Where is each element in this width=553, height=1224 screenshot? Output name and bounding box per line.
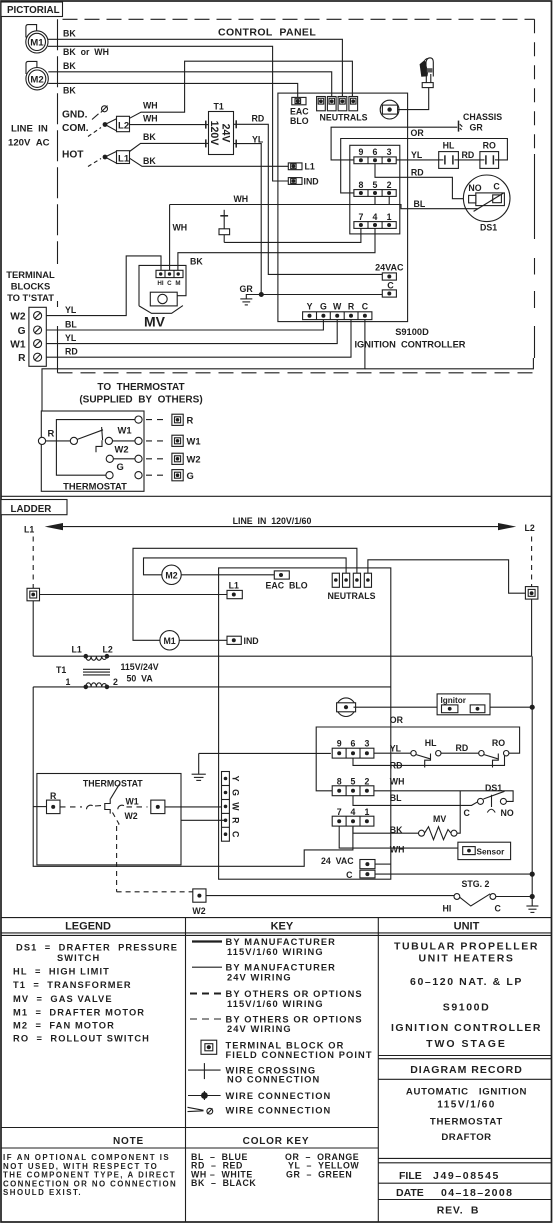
L2 rail lower solid (531, 599, 533, 656)
T1 secondary wire to controller (33, 686, 391, 688)
transformer T1 (209, 112, 234, 155)
svg-text:R: R (231, 817, 241, 824)
HL switch ladder (411, 751, 416, 756)
svg-text:BK: BK (63, 61, 76, 71)
wire M2 BK to EAC BLO (48, 83, 298, 97)
wire MV to WH row ladder (457, 791, 460, 833)
neutral terminal 4 (349, 97, 358, 111)
wire BL 5 to DS1 C ladder (353, 796, 478, 806)
wire C to rail ladder (375, 873, 532, 875)
W1 dashes ladder (127, 806, 148, 808)
wire WH 7 to sensor ladder (339, 826, 458, 848)
svg-text:DS1: DS1 (480, 223, 497, 233)
neutral terminals ladder (332, 573, 339, 587)
svg-text:NO: NO (501, 808, 514, 818)
wire terminal 7 to splice (224, 228, 361, 242)
neutral terminal 1 (317, 97, 326, 111)
round ignitor terminal (380, 100, 399, 119)
svg-text:TUBULAR PROPELLER: TUBULAR PROPELLER (394, 941, 539, 953)
svg-text:3: 3 (387, 147, 392, 157)
svg-text:BK or WH: BK or WH (63, 47, 109, 57)
svg-text:THERMOSTAT: THERMOSTAT (83, 779, 143, 789)
svg-text:W1: W1 (118, 424, 132, 435)
motor M2 (26, 68, 48, 90)
svg-text:BK – BLACK: BK – BLACK (191, 1178, 256, 1188)
svg-text:T1 = TRANSFORMER: T1 = TRANSFORMER (13, 980, 132, 990)
svg-text:M2: M2 (165, 570, 177, 580)
wire WH 2 to DS1 NO ladder (374, 791, 513, 802)
svg-text:COM.: COM. (62, 123, 89, 134)
key symbol solid 24V (192, 966, 222, 968)
svg-text:GR: GR (240, 284, 254, 294)
wire BL G to terminal block G (46, 320, 323, 330)
thermostat R circle top (135, 416, 142, 423)
L1 24V rail down (33, 687, 353, 866)
chassis ground symbol (458, 121, 460, 132)
svg-text:SWITCH: SWITCH (57, 953, 100, 963)
IND terminal ladder (227, 636, 241, 644)
NOTE box (1, 1127, 378, 1129)
svg-text:L1: L1 (72, 645, 82, 655)
svg-text:OR: OR (411, 128, 425, 138)
wire W1 to strip W (165, 806, 222, 808)
svg-text:C: C (346, 870, 353, 880)
Ignitor box ladder (437, 694, 490, 715)
svg-text:L1: L1 (305, 162, 315, 172)
LADDER title box (1, 500, 67, 515)
svg-text:W2: W2 (187, 454, 201, 465)
svg-text:M1 = DRAFTER MOTOR: M1 = DRAFTER MOTOR (13, 1007, 145, 1017)
svg-text:R: R (18, 353, 26, 364)
node ignitor rail (530, 705, 535, 710)
screw terminal G (34, 326, 42, 334)
svg-text:GR: GR (470, 123, 484, 133)
svg-text:DS1: DS1 (485, 783, 502, 793)
svg-text:24VAC: 24VAC (375, 263, 404, 273)
svg-text:Y: Y (231, 776, 241, 782)
wire YL 3 to HL ladder (374, 752, 411, 754)
wire YL W2 to MV HI (46, 256, 161, 316)
svg-text:115V/1/60 WIRING: 115V/1/60 WIRING (227, 999, 324, 1009)
svg-text:W2: W2 (10, 311, 26, 322)
wire YL T1 secondary to GR (234, 144, 262, 295)
screw terminal R (34, 353, 42, 361)
svg-text:4: 4 (373, 212, 378, 222)
svg-text:WH: WH (173, 222, 188, 232)
svg-text:T1: T1 (214, 102, 224, 112)
svg-text:MV = GAS VALVE: MV = GAS VALVE (13, 994, 113, 1004)
svg-text:RO: RO (483, 141, 496, 151)
svg-text:W: W (231, 802, 241, 811)
svg-text:9: 9 (358, 147, 363, 157)
thermostat W2 contact (106, 455, 113, 462)
svg-text:C: C (387, 281, 394, 291)
svg-text:HI: HI (443, 904, 452, 914)
file date rev rows (378, 1157, 551, 1159)
svg-text:NEUTRALS: NEUTRALS (320, 113, 368, 123)
svg-text:J49–08545: J49–08545 (433, 1170, 500, 1182)
svg-text:LINE IN: LINE IN (11, 124, 48, 135)
field connection G (146, 474, 168, 476)
svg-text:8: 8 (337, 776, 342, 786)
wire M1 BK to neutral 3 (48, 39, 342, 96)
svg-text:5: 5 (351, 776, 356, 786)
svg-text:W2: W2 (192, 906, 205, 916)
wire M1 to neutral 3 ladder (133, 548, 357, 640)
svg-text:BK: BK (63, 29, 76, 39)
wire RD terminal 6 to DS1 NO (375, 164, 469, 199)
screw terminal W2 (34, 312, 42, 320)
svg-text:C: C (464, 808, 471, 818)
svg-text:CHASSIS: CHASSIS (463, 112, 502, 122)
svg-text:RD: RD (456, 743, 469, 753)
key symbol wire connection dot (188, 1095, 221, 1097)
tables column dividers (185, 918, 187, 1222)
svg-text:BL: BL (414, 199, 426, 209)
key symbol dashed 24V (190, 1018, 224, 1020)
svg-text:UNIT HEATERS: UNIT HEATERS (418, 952, 514, 964)
svg-text:KEY: KEY (271, 921, 294, 933)
svg-text:L2: L2 (118, 121, 129, 132)
wire BK terminal 4 to MV M (178, 228, 375, 270)
terminal L2 (103, 122, 108, 127)
svg-text:W1: W1 (187, 436, 201, 447)
svg-text:TO T’STAT: TO T’STAT (7, 292, 54, 303)
motor M1 scroll housing (26, 25, 37, 38)
svg-text:24V WIRING: 24V WIRING (227, 972, 292, 982)
svg-text:RD: RD (65, 347, 78, 357)
wire BK L1 hot to controller L1 (130, 158, 289, 166)
svg-text:WIRE CONNECTION: WIRE CONNECTION (226, 1091, 332, 1101)
wire L1 rail to L1 terminal (40, 594, 228, 596)
svg-text:BY MANUFACTURER: BY MANUFACTURER (226, 963, 337, 973)
thermostat box (41, 411, 144, 491)
svg-text:BK: BK (190, 256, 203, 266)
svg-text:W2: W2 (115, 444, 129, 455)
splice connector on WH wire (223, 210, 225, 229)
wire M2 to EAC BLO ladder (181, 574, 274, 576)
wire rail to thermostat R ladder (33, 806, 46, 808)
svg-text:HL: HL (425, 738, 437, 748)
svg-text:C: C (362, 302, 369, 312)
wire ignitor to L2 rail (490, 706, 532, 708)
svg-text:W: W (333, 302, 342, 312)
PICTORIAL title box (1, 2, 63, 17)
ground GR node (259, 292, 264, 297)
svg-text:G: G (18, 326, 26, 337)
diagram record box (378, 1055, 551, 1057)
svg-text:DRAFTOR: DRAFTOR (441, 1132, 491, 1143)
svg-text:NEUTRALS: NEUTRALS (328, 591, 376, 601)
svg-text:RD: RD (390, 761, 403, 771)
MV solenoid body (150, 292, 177, 306)
svg-text:RD: RD (462, 150, 475, 160)
svg-text:NOTE: NOTE (113, 1136, 144, 1147)
svg-text:BL: BL (390, 793, 402, 803)
Sensor box ladder (458, 842, 511, 859)
svg-text:8: 8 (358, 180, 363, 190)
transformer T1 ladder top wire (32, 601, 34, 656)
svg-text:24V WIRING: 24V WIRING (227, 1024, 292, 1034)
svg-text:LADDER: LADDER (11, 504, 52, 515)
key symbol terminal block (201, 1040, 217, 1054)
wire WH MV C (169, 205, 171, 271)
svg-text:RD: RD (252, 114, 265, 124)
L1 rail terminal (27, 588, 40, 601)
wire BK 4 to MV ladder (353, 826, 419, 833)
wire GR to C terminal (261, 294, 382, 296)
key symbol solid 115V (192, 940, 222, 942)
svg-text:TO THERMOSTAT: TO THERMOSTAT (97, 382, 184, 393)
svg-text:IGNITION CONTROLLER: IGNITION CONTROLLER (391, 1022, 542, 1034)
T1 ladder primary (84, 654, 89, 659)
wire RD HL to RO (458, 159, 480, 161)
svg-text:C: C (493, 181, 500, 191)
wire round terminal to ignitor (398, 88, 429, 110)
svg-text:2: 2 (364, 776, 369, 786)
svg-text:115V/1/60 WIRING: 115V/1/60 WIRING (227, 947, 324, 957)
wire C to thermostat R (42, 320, 365, 411)
high limit HL (439, 152, 459, 169)
svg-text:5: 5 (373, 180, 378, 190)
section divider pictorial/ladder (1, 495, 552, 497)
wire M2 to neutral 2 ladder (144, 558, 347, 575)
L2 rail terminal (525, 587, 538, 600)
wire M1 BK or WH to IND (48, 46, 288, 181)
wire STG2 to ground rail (496, 896, 532, 898)
svg-text:BLO: BLO (290, 116, 309, 126)
MV terminal strip HI C M (156, 270, 183, 277)
svg-text:YL: YL (390, 743, 402, 753)
svg-text:YL: YL (65, 305, 77, 315)
control panel dashed border right (534, 19, 536, 150)
screw terminal W1 (34, 340, 42, 348)
svg-text:M1: M1 (30, 38, 44, 49)
svg-text:TERMINAL: TERMINAL (6, 269, 55, 280)
svg-text:CONNECTION OR NO CONNECTION: CONNECTION OR NO CONNECTION (3, 1179, 177, 1188)
ground bottom right ladder (531, 897, 533, 906)
svg-text:STG. 2: STG. 2 (462, 879, 490, 889)
motor M1 ladder (160, 631, 179, 650)
control panel dashed border bottom (58, 372, 535, 374)
terminal L1 hot (103, 155, 108, 160)
svg-text:EAC: EAC (290, 107, 309, 117)
svg-text:IGNITION CONTROLLER: IGNITION CONTROLLER (354, 339, 465, 349)
svg-text:THERMOSTAT: THERMOSTAT (430, 1116, 503, 1127)
svg-text:SHOULD EXIST.: SHOULD EXIST. (3, 1188, 82, 1197)
key symbol wire crossing (188, 1069, 221, 1071)
wire M2 BK to neutral 2 (48, 72, 331, 97)
section divider ladder/tables (1, 917, 552, 919)
svg-text:M2: M2 (30, 74, 43, 85)
svg-text:UNIT: UNIT (454, 921, 480, 933)
svg-text:60–120 NAT. & LP: 60–120 NAT. & LP (410, 976, 523, 988)
svg-text:WIRE CONNECTION: WIRE CONNECTION (226, 1105, 332, 1115)
wire W2 to STG2 ladder (206, 895, 454, 897)
svg-text:L1: L1 (24, 525, 34, 535)
svg-text:6: 6 (351, 739, 356, 749)
thermostat W1 contact (113, 440, 135, 442)
S9100D controller box (278, 93, 408, 322)
svg-text:BY OTHERS OR OPTIONS: BY OTHERS OR OPTIONS (226, 989, 363, 999)
svg-text:2: 2 (113, 677, 118, 687)
svg-text:G: G (320, 302, 327, 312)
wire to ignitor ladder (354, 706, 438, 708)
wire RD T1 secondary to 24VAC (234, 124, 383, 274)
svg-text:LEGEND: LEGEND (65, 921, 111, 933)
svg-text:50 VA: 50 VA (127, 674, 154, 684)
neutral terminal 2 (327, 97, 336, 111)
svg-text:FILE: FILE (399, 1170, 422, 1182)
inner terminal box (350, 145, 400, 234)
svg-text:C: C (495, 904, 502, 914)
svg-text:DS1 = DRAFTER PRESSURE: DS1 = DRAFTER PRESSURE (16, 942, 178, 952)
svg-text:M1: M1 (163, 636, 175, 646)
svg-text:TERMINAL BLOCK OR: TERMINAL BLOCK OR (226, 1040, 345, 1050)
GND no-connection symbol (102, 106, 108, 112)
svg-text:HL: HL (443, 141, 455, 151)
svg-text:IND: IND (244, 636, 259, 646)
svg-text:MV: MV (144, 314, 166, 330)
svg-text:G: G (117, 461, 124, 472)
svg-text:S9100D: S9100D (395, 327, 429, 337)
T1 ladder secondary (86, 683, 107, 687)
svg-text:DIAGRAM RECORD: DIAGRAM RECORD (410, 1064, 523, 1076)
svg-text:NOT USED, WITH RESPECT TO: NOT USED, WITH RESPECT TO (3, 1162, 158, 1171)
svg-text:AUTOMATIC IGNITION: AUTOMATIC IGNITION (406, 1086, 527, 1097)
svg-text:C: C (231, 831, 241, 838)
svg-text:R: R (187, 415, 194, 426)
svg-text:24V: 24V (220, 124, 232, 143)
svg-text:6: 6 (373, 147, 378, 157)
svg-text:1: 1 (387, 212, 392, 222)
svg-text:BY OTHERS OR OPTIONS: BY OTHERS OR OPTIONS (226, 1015, 363, 1025)
svg-text:HI: HI (157, 280, 163, 287)
svg-text:LINE IN 120V/1/60: LINE IN 120V/1/60 (233, 516, 312, 526)
svg-text:L2: L2 (103, 645, 113, 655)
svg-text:YL: YL (65, 333, 77, 343)
svg-text:IND: IND (304, 176, 319, 186)
terminal L1 controller (288, 163, 302, 170)
motor M1 (26, 31, 48, 53)
wire YL terminal 3 to HL (396, 159, 439, 161)
svg-text:CONTROL PANEL: CONTROL PANEL (218, 27, 316, 39)
svg-text:BK: BK (63, 85, 76, 95)
svg-text:IF AN OPTIONAL COMPONENT IS: IF AN OPTIONAL COMPONENT IS (3, 1153, 170, 1162)
wire WH L2 to T1 primary (130, 124, 206, 126)
svg-text:2: 2 (387, 180, 392, 190)
chassis GR wire from terminal 9 (331, 127, 457, 160)
svg-text:HOT: HOT (62, 150, 84, 161)
svg-text:T1: T1 (56, 665, 66, 675)
svg-text:YL: YL (411, 150, 423, 160)
thermostat G contact (106, 472, 113, 479)
wire RD 6 to RO right ladder (353, 756, 505, 766)
svg-text:RD: RD (411, 168, 424, 178)
svg-text:BY MANUFACTURER: BY MANUFACTURER (226, 937, 337, 947)
motor M2 scroll housing (26, 61, 37, 74)
svg-text:BK: BK (143, 156, 156, 166)
svg-text:W2: W2 (125, 811, 138, 821)
key symbol dashed 115V (190, 993, 224, 995)
control panel dashed border top (63, 18, 535, 20)
W2 terminal ladder (193, 889, 206, 902)
svg-text:G: G (231, 789, 241, 796)
wire OR terminal 8 to RO loop (341, 139, 508, 193)
svg-text:YL: YL (252, 135, 264, 145)
L1 rail dashed (32, 537, 34, 589)
svg-text:NO CONNECTION: NO CONNECTION (227, 1074, 320, 1084)
svg-text:TWO STAGE: TWO STAGE (426, 1038, 507, 1050)
terminal IND (288, 178, 302, 185)
svg-text:1: 1 (66, 677, 71, 687)
RO switch ladder (479, 751, 484, 756)
svg-text:PICTORIAL: PICTORIAL (7, 5, 60, 16)
svg-text:W1: W1 (126, 797, 139, 807)
wire YL W to terminal block W1 (46, 320, 337, 344)
svg-text:EAC BLO: EAC BLO (266, 581, 308, 591)
svg-text:W1: W1 (10, 339, 26, 350)
svg-text:BK: BK (143, 132, 156, 142)
EAC BLO terminal ladder (274, 571, 289, 579)
svg-text:04–18–2008: 04–18–2008 (441, 1187, 513, 1199)
svg-text:WH: WH (390, 845, 405, 855)
wire BK L1 to T1 primary (130, 143, 206, 151)
field connection W2 (146, 458, 168, 460)
svg-text:L2: L2 (525, 523, 535, 533)
wire RD R to terminal block R (46, 320, 351, 358)
svg-text:1: 1 (364, 807, 369, 817)
MV valve mouth (139, 306, 183, 314)
svg-text:G: G (187, 470, 194, 481)
svg-text:M: M (175, 280, 180, 287)
control panel dashed border left (57, 19, 59, 264)
svg-text:4: 4 (351, 807, 356, 817)
svg-text:GND.: GND. (62, 110, 88, 121)
thermostat switch ladder (60, 806, 82, 808)
wire R strip to thermostat box (181, 819, 226, 821)
field connection W1 (146, 440, 168, 442)
header underline double (1, 932, 552, 934)
svg-text:BLOCKS: BLOCKS (11, 281, 51, 292)
svg-text:Sensor: Sensor (477, 847, 506, 856)
svg-text:WH: WH (234, 194, 249, 204)
neutral terminal 3 (338, 97, 347, 111)
drafter pressure switch DS1 (463, 175, 510, 222)
key symbol quick connect (188, 1107, 204, 1110)
wire neutral 4 to L2 rail (368, 560, 526, 593)
wire M1 to IND ladder (179, 639, 227, 641)
svg-text:RO: RO (492, 738, 505, 748)
svg-text:NO: NO (468, 183, 481, 193)
L2 rail dashed (531, 537, 533, 587)
svg-text:M2 = FAN MOTOR: M2 = FAN MOTOR (13, 1021, 115, 1031)
svg-text:S9100D: S9100D (443, 1002, 491, 1014)
svg-text:115V/1/60: 115V/1/60 (437, 1099, 496, 1110)
svg-text:RO = ROLLOUT SWITCH: RO = ROLLOUT SWITCH (13, 1033, 150, 1043)
svg-text:L1: L1 (118, 153, 130, 164)
svg-text:9: 9 (337, 739, 342, 749)
svg-text:OR: OR (390, 715, 404, 725)
wire RD HL to RO ladder (441, 752, 479, 754)
jumper terminal 5 to 2 (375, 196, 389, 204)
svg-text:COLOR KEY: COLOR KEY (243, 1136, 310, 1147)
svg-text:L1: L1 (229, 581, 239, 591)
svg-text:120V AC: 120V AC (8, 138, 50, 149)
svg-text:THERMOSTAT: THERMOSTAT (63, 480, 127, 491)
wire WH BL splice to DS1 (170, 205, 478, 209)
svg-text:WH: WH (143, 101, 158, 111)
